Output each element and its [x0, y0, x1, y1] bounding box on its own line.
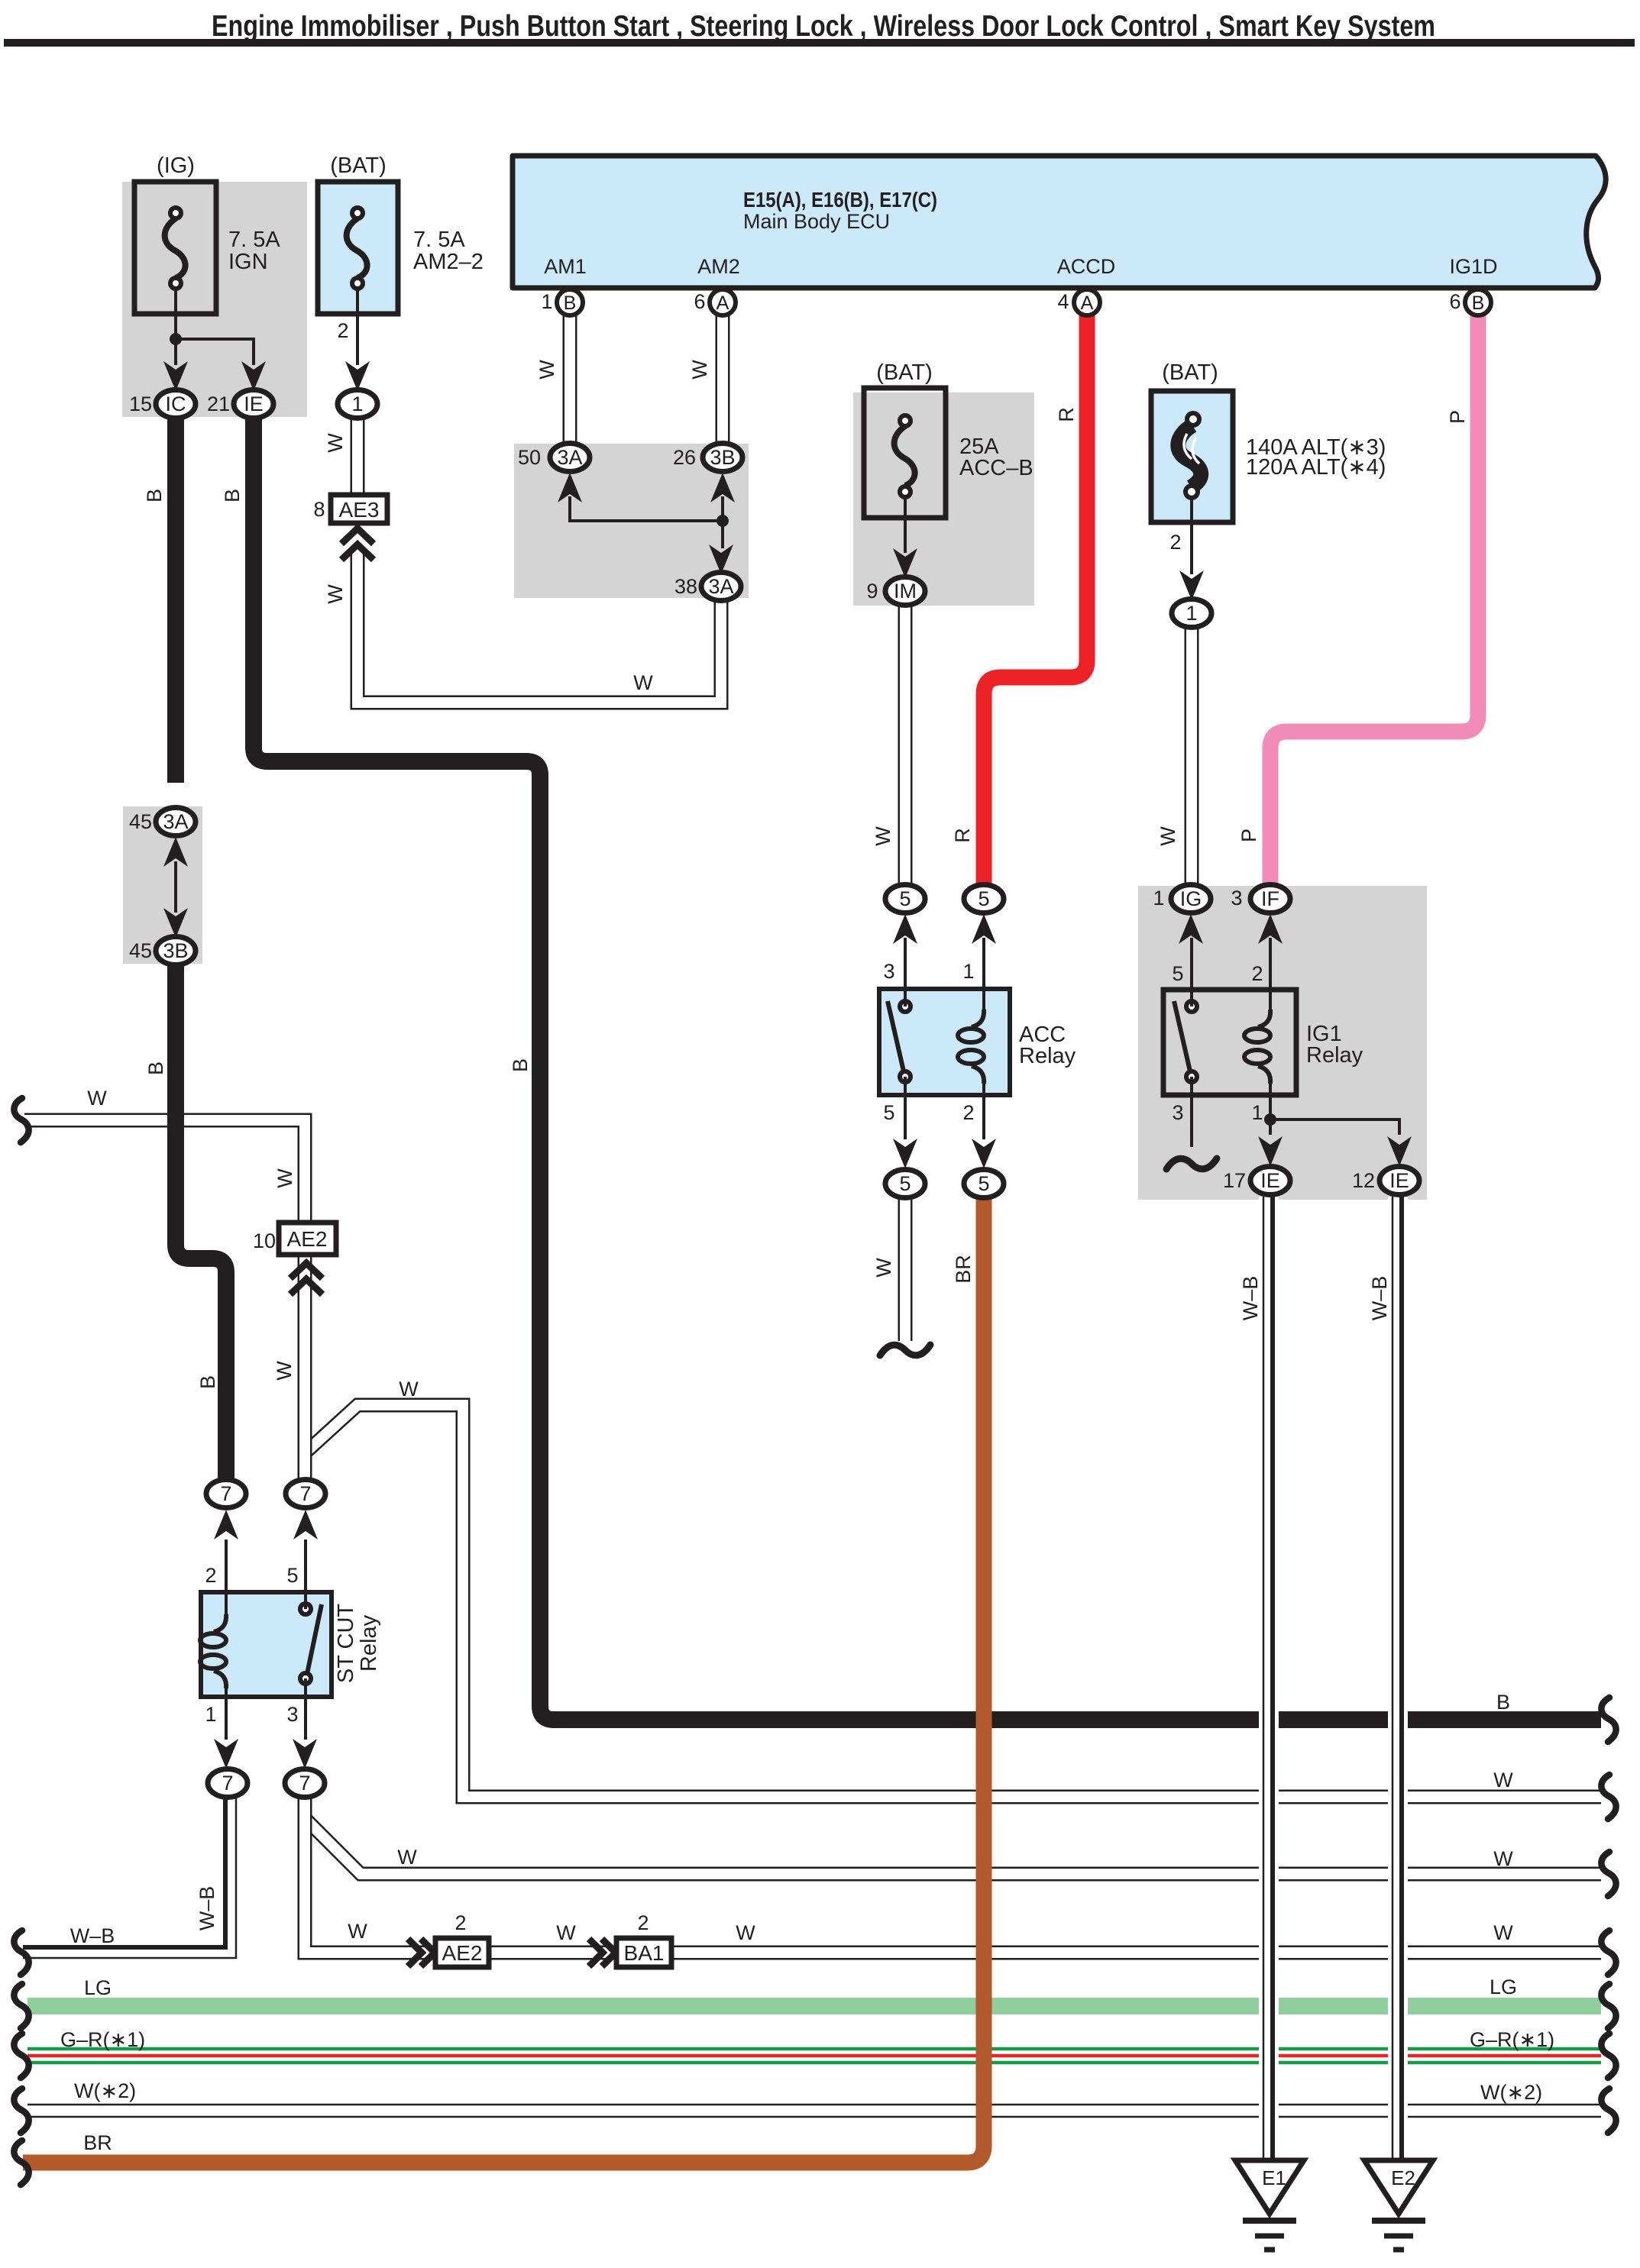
- svg-text:5: 5: [899, 1172, 911, 1195]
- wire W from connector 1 (ALT fuse) to connector IG of IG1 relay: [1185, 625, 1199, 887]
- svg-text:W–B: W–B: [70, 1924, 115, 1947]
- svg-text:38: 38: [674, 575, 697, 598]
- svg-text:B: B: [221, 489, 244, 502]
- break at left edge of W wire to AE2: [14, 1098, 28, 1142]
- svg-text:BR: BR: [83, 2131, 112, 2154]
- pin circle B of ECU connector AM1: [557, 289, 583, 315]
- svg-text:W: W: [273, 1361, 296, 1381]
- svg-text:P: P: [1237, 829, 1260, 842]
- connector oval 3B(26): [703, 444, 742, 472]
- connector oval 3A(50): [550, 444, 590, 472]
- fusible link 140A/120A ALT box: [1151, 391, 1233, 522]
- svg-text:7: 7: [222, 1772, 233, 1795]
- arrow into IM: [893, 548, 917, 578]
- fuse 25A ACC-B symbol: [894, 426, 915, 486]
- svg-text:5: 5: [978, 1172, 989, 1195]
- svg-text:W: W: [1493, 1769, 1513, 1791]
- svg-text:W: W: [399, 1378, 419, 1401]
- svg-text:B: B: [143, 489, 166, 502]
- svg-text:AE2: AE2: [442, 1941, 483, 1965]
- arrow into IC: [163, 361, 188, 391]
- wire W from left break through AE2 to ST CUT relay pin 5 connector 7: [24, 1120, 305, 1479]
- svg-text:3B: 3B: [163, 939, 188, 962]
- svg-text:A: A: [716, 292, 729, 314]
- svg-text:3: 3: [883, 960, 894, 983]
- svg-text:3A: 3A: [708, 575, 733, 598]
- wire BR from left break along bottom and up to ACC relay pin 2 connector 5: [23, 1197, 984, 2163]
- break at right edge of middle W bus: [1601, 1852, 1616, 1896]
- connector oval 7 (ST CUT pin2): [206, 1480, 246, 1508]
- svg-text:1: 1: [962, 960, 974, 983]
- break at left edge of G-R bus: [14, 2034, 28, 2078]
- svg-text:3: 3: [286, 1703, 298, 1726]
- svg-text:IE: IE: [1260, 1169, 1280, 1192]
- gray panel behind ACC-B fuse and IM connector: [853, 393, 1034, 606]
- pin circle A of ECU connector ACCD: [1074, 289, 1100, 315]
- gray panel behind IG1 relay: [1138, 886, 1427, 1200]
- svg-text:21: 21: [207, 393, 230, 415]
- wire W branch from ST CUT pin5 wire to right break (upper W bus): [306, 1405, 1601, 1797]
- svg-text:6: 6: [694, 290, 705, 313]
- fuse 7.5A AM2-2 symbol: [347, 218, 367, 278]
- svg-text:1: 1: [1251, 1101, 1263, 1124]
- svg-text:3: 3: [1172, 1101, 1183, 1124]
- svg-text:W: W: [1156, 826, 1179, 846]
- svg-text:BA1: BA1: [624, 1941, 665, 1965]
- svg-text:3B: 3B: [710, 446, 735, 469]
- svg-text:IE: IE: [1389, 1169, 1409, 1192]
- svg-text:B: B: [196, 1375, 219, 1389]
- IG1 relay pin3 open end squiggle: [1166, 1158, 1217, 1169]
- svg-text:AM2: AM2: [697, 255, 740, 278]
- ACC relay pin wires: [905, 938, 984, 1139]
- connector oval 1 (ALT): [1172, 599, 1211, 628]
- fusible link ALT symbol: [1178, 425, 1201, 487]
- IG1 relay switch: [1174, 1001, 1190, 1071]
- svg-text:2: 2: [1251, 962, 1263, 985]
- svg-text:Engine Immobiliser , Push Butt: Engine Immobiliser , Push Button Start ,…: [212, 10, 1435, 43]
- svg-text:W: W: [1493, 1847, 1513, 1870]
- svg-text:2: 2: [637, 1911, 649, 1934]
- connector oval 5 (ACC pin5 bottom): [885, 1170, 925, 1198]
- ACC relay box: [879, 989, 1010, 1095]
- arrow into connector 1 (ALT): [1179, 570, 1204, 600]
- svg-text:IC: IC: [166, 393, 186, 415]
- connector oval 7 (ST CUT pin5): [286, 1480, 325, 1508]
- IG1 relay coil: [1258, 1010, 1270, 1027]
- svg-text:R: R: [951, 828, 974, 843]
- arrow into connector 1 (AM2-2): [345, 361, 370, 391]
- wire W from junction IM to connector 5 (ACC relay pin 3 side): [898, 603, 913, 887]
- arrow into IE(17): [1258, 1136, 1283, 1166]
- svg-text:7. 5A: 7. 5A: [228, 228, 280, 252]
- svg-text:45: 45: [129, 810, 152, 833]
- svg-text:2: 2: [205, 1564, 216, 1587]
- connector oval 3A(45): [156, 808, 196, 836]
- svg-text:12: 12: [1352, 1169, 1375, 1192]
- arrow into 3A(50): [558, 473, 582, 502]
- wire B from connector IE down, right, down and along bottom to right break (B bus): [254, 417, 1601, 1720]
- svg-text:B: B: [564, 292, 577, 314]
- connector BA1 chevron: [589, 1939, 603, 1966]
- svg-text:W: W: [556, 1921, 576, 1944]
- arrow into IE: [241, 361, 266, 391]
- svg-text:2: 2: [454, 1911, 466, 1934]
- connector oval 1 (AM2-2): [338, 390, 377, 418]
- svg-text:(BAT): (BAT): [876, 360, 933, 385]
- wire W-B white casing for E2 ground wire crossing buses: [1388, 1197, 1408, 2160]
- svg-text:AE3: AE3: [339, 498, 380, 522]
- arrow into 3B(26): [710, 473, 735, 502]
- svg-text:IG: IG: [1180, 887, 1202, 910]
- wire W branch from ST CUT pin3 wire to right break (middle W bus): [306, 1819, 1601, 1874]
- arrow into ST CUT top connector 7 (pin2): [214, 1510, 238, 1539]
- svg-text:W: W: [348, 1920, 367, 1943]
- break at right edge of LG bus: [1601, 1984, 1616, 2028]
- svg-text:3: 3: [1231, 887, 1242, 909]
- svg-text:15: 15: [129, 393, 152, 415]
- svg-text:B: B: [1472, 292, 1485, 314]
- svg-text:W: W: [872, 826, 894, 846]
- svg-text:W–B: W–B: [1368, 1276, 1391, 1321]
- arrow into IF: [1258, 914, 1283, 944]
- svg-text:E2: E2: [1391, 2166, 1415, 2189]
- connector oval IG: [1171, 885, 1211, 913]
- break at right edge of W(*2) bus: [1601, 2089, 1616, 2133]
- svg-text:4: 4: [1057, 290, 1069, 313]
- ground E2 triangle: [1364, 2160, 1433, 2214]
- fuse 7.5A AM2-2 box: [318, 182, 398, 314]
- svg-text:BR: BR: [952, 1255, 975, 1284]
- wire W(*2) bus lower line: [27, 2116, 1601, 2118]
- svg-text:Relay: Relay: [1306, 1043, 1363, 1068]
- svg-text:W: W: [736, 1921, 755, 1944]
- svg-text:26: 26: [673, 446, 696, 469]
- svg-text:5: 5: [978, 887, 989, 910]
- break at left edge of BR bus: [14, 2140, 28, 2185]
- wire W-B from IG1 relay connector IE(12) to ground E2 - thin line: [1392, 1197, 1394, 2160]
- arrow into ACC bottom connector 5 (pin5): [893, 1139, 917, 1168]
- svg-text:W: W: [1493, 1921, 1513, 1944]
- svg-text:W: W: [535, 360, 558, 380]
- wire R from ECU ACCD pin A to ACC relay pin 1 connector 5: [984, 315, 1087, 886]
- svg-text:Relay: Relay: [1019, 1044, 1076, 1068]
- wire from AM2-2 fuse to connector 1: [356, 286, 359, 365]
- svg-text:P: P: [1446, 410, 1469, 424]
- svg-text:2: 2: [1169, 531, 1181, 554]
- arrow into IG: [1179, 914, 1203, 944]
- ECU E15/E16/E17 Main Body ECU box: [513, 156, 1606, 288]
- wire W below ACC relay pin 5 connector to break: [898, 1196, 913, 1341]
- connector AE2(2) box: [435, 1938, 489, 1967]
- ACC relay switch: [888, 1001, 904, 1071]
- break at left edge of LG bus: [14, 1984, 28, 2028]
- connector oval IC: [156, 390, 196, 418]
- arrow into ACC bottom connector 5 (pin2): [972, 1139, 996, 1168]
- arrow into ST CUT top connector 7 (pin5): [293, 1510, 318, 1539]
- svg-text:8: 8: [313, 498, 325, 521]
- svg-text:17: 17: [1223, 1169, 1246, 1192]
- ST CUT relay pin wires: [226, 1539, 306, 1740]
- svg-text:IE: IE: [244, 393, 264, 415]
- break at right edge of G-R bus: [1601, 2034, 1616, 2078]
- wire W-B white casing for E1 ground wire crossing buses: [1259, 1197, 1279, 2160]
- fuse 25A ACC-B box: [864, 388, 946, 518]
- svg-text:5: 5: [286, 1564, 298, 1587]
- svg-text:7. 5A: 7. 5A: [413, 228, 465, 252]
- svg-text:(IG): (IG): [157, 153, 195, 178]
- svg-text:E15(A), E16(B), E17(C): E15(A), E16(B), E17(C): [743, 188, 937, 212]
- svg-text:W: W: [397, 1846, 417, 1869]
- arrow into 3A(38): [709, 544, 733, 574]
- connector oval 5 (ACC pin3 top): [885, 885, 925, 913]
- connector oval IE(17): [1250, 1167, 1290, 1195]
- svg-text:7: 7: [220, 1482, 231, 1505]
- svg-text:(BAT): (BAT): [330, 153, 387, 178]
- arrow into 3B(45): [163, 908, 188, 938]
- svg-text:W: W: [273, 1168, 296, 1188]
- svg-text:2: 2: [337, 319, 348, 342]
- svg-text:9: 9: [866, 580, 878, 603]
- svg-text:3A: 3A: [557, 446, 582, 469]
- svg-text:W: W: [872, 1258, 895, 1278]
- break at left edge of W(*2) bus: [14, 2089, 28, 2133]
- gray panel behind IGN fuse and IC/IE connectors: [122, 182, 307, 417]
- pin circle B of ECU connector IG1D: [1465, 289, 1491, 315]
- gray panel behind 3A/3B junction connectors (top): [514, 444, 749, 598]
- wire W-B from IG1 relay connector IE(17) to ground E1 - thick line: [1270, 1197, 1275, 2160]
- svg-text:3A: 3A: [163, 810, 188, 833]
- connector AE3 chevron: [341, 528, 374, 544]
- IG1 relay box: [1163, 990, 1296, 1095]
- svg-text:Relay: Relay: [357, 1614, 381, 1672]
- svg-text:1: 1: [1186, 602, 1197, 625]
- connector oval IF: [1250, 885, 1290, 913]
- svg-text:5: 5: [1172, 962, 1183, 985]
- svg-text:1: 1: [205, 1703, 216, 1726]
- svg-text:6: 6: [1449, 290, 1460, 313]
- connector BA1 box: [616, 1938, 671, 1967]
- wire G-R(*1) bus green stripe bottom: [27, 2061, 1601, 2065]
- connector oval IE(12): [1380, 1167, 1419, 1195]
- svg-text:IGN: IGN: [228, 250, 268, 274]
- ground E2 earth bars: [1372, 2218, 1425, 2224]
- svg-text:W–B: W–B: [1239, 1276, 1262, 1321]
- connector oval IM: [885, 577, 925, 606]
- svg-text:W: W: [324, 433, 347, 453]
- svg-text:G–R(∗1): G–R(∗1): [1470, 2028, 1554, 2051]
- svg-text:ACC–B: ACC–B: [959, 456, 1033, 480]
- wire W-B from ST CUT pin1 connector 7 to left break - thin line: [23, 1798, 236, 1958]
- break at right edge of upper W bus: [1601, 1775, 1616, 1819]
- svg-text:ACCD: ACCD: [1057, 255, 1116, 278]
- gray panel behind 3A/3B junction connectors (middle left): [123, 806, 202, 964]
- fuse 7.5A IGN box: [134, 182, 216, 314]
- svg-text:G–R(∗1): G–R(∗1): [60, 2028, 145, 2051]
- wire from ACC-B fuse to connector IM: [904, 495, 907, 553]
- svg-text:W: W: [633, 671, 653, 694]
- svg-text:W(∗2): W(∗2): [1480, 2081, 1542, 2104]
- ST CUT relay box: [201, 1592, 332, 1697]
- break at right edge of lower W bus: [1601, 1930, 1616, 1975]
- junction dot below IGN fuse: [170, 333, 182, 345]
- ACC relay coil: [972, 1010, 984, 1027]
- svg-text:W(∗2): W(∗2): [74, 2079, 136, 2102]
- wire from ALT fusible link to connector 1: [1190, 496, 1193, 574]
- svg-text:1: 1: [1153, 887, 1164, 909]
- svg-text:5: 5: [899, 887, 911, 910]
- break at right edge of B bus: [1601, 1698, 1616, 1742]
- svg-text:R: R: [1055, 407, 1078, 422]
- wire stubs between 3A(50)/3B(26) and 3A(38) with junction dot: [570, 496, 723, 548]
- svg-text:W: W: [324, 584, 347, 604]
- connector AE2(2) chevron on lower W bus: [408, 1939, 422, 1966]
- svg-text:W–B: W–B: [196, 1886, 218, 1931]
- wire LG bus: [27, 1998, 1601, 2014]
- wire B from connector IC down to junction 3A(45): [167, 417, 184, 783]
- svg-text:10: 10: [253, 1229, 276, 1252]
- svg-text:IG1D: IG1D: [1449, 255, 1497, 278]
- svg-text:120A ALT(∗4): 120A ALT(∗4): [1246, 455, 1386, 480]
- wire W(*2) bus upper line: [27, 2104, 1601, 2106]
- arrow into IE(12): [1387, 1136, 1412, 1166]
- wire W from ECU AM1 pin B to junction 3A(50): [563, 315, 577, 445]
- ground E1 earth bars: [1243, 2218, 1296, 2224]
- svg-text:45: 45: [129, 939, 152, 962]
- ground E1 triangle: [1235, 2160, 1304, 2214]
- connector oval IE: [234, 390, 273, 418]
- connector oval 7 (ST CUT pin3): [285, 1769, 325, 1798]
- wire G-R(*1) bus green stripe top: [27, 2047, 1601, 2051]
- svg-text:B: B: [144, 1061, 167, 1075]
- ACC relay pin5 wire open end squiggle: [880, 1345, 930, 1355]
- wire W-B from ST CUT pin1 connector 7 to left break - thick line: [23, 1798, 225, 1947]
- connector AE3 box: [331, 495, 387, 523]
- svg-text:5: 5: [883, 1101, 894, 1124]
- connector AE2(10) box: [279, 1223, 336, 1255]
- ST CUT relay switch: [307, 1604, 322, 1674]
- title underline rule: [4, 39, 1635, 47]
- svg-text:A: A: [1081, 292, 1094, 314]
- fuse 7.5A IGN symbol: [165, 218, 186, 278]
- ST CUT relay coil: [214, 1614, 226, 1632]
- wire W from connector 1 (AM2-2 fuse) to connector AE3: [351, 416, 365, 496]
- wire W from ST CUT pin3 connector 7 through AE2 and BA1 to right break (lower W bus): [305, 1798, 1601, 1953]
- svg-text:2: 2: [962, 1101, 974, 1124]
- connector AE2(10) chevron: [290, 1263, 322, 1278]
- connector oval 3A(38): [701, 573, 741, 601]
- arrow into 3A(45): [163, 837, 188, 867]
- svg-text:W: W: [87, 1087, 107, 1110]
- svg-text:1: 1: [351, 393, 363, 415]
- wire W-B from IG1 relay connector IE(17) to ground E1 - thin line: [1263, 1197, 1265, 2160]
- connector oval 3B(45): [156, 937, 196, 965]
- svg-text:B: B: [509, 1058, 532, 1072]
- svg-text:(BAT): (BAT): [1162, 360, 1218, 385]
- arrow into ACC top connector 5 (pin1): [972, 914, 996, 944]
- wire stub between 3A(45) and 3B(45): [174, 861, 177, 913]
- svg-text:AM2–2: AM2–2: [413, 250, 484, 274]
- IG1 relay pin wires and junction: [1192, 938, 1399, 1147]
- svg-text:B: B: [1496, 1691, 1510, 1714]
- svg-text:50: 50: [518, 446, 541, 469]
- wire W-B from IG1 relay connector IE(12) to ground E2 - thick line: [1399, 1197, 1404, 2160]
- svg-text:1: 1: [541, 290, 552, 313]
- svg-text:IF: IF: [1261, 887, 1279, 910]
- svg-text:AM1: AM1: [544, 255, 587, 278]
- arrow into ST CUT bottom connector 7 (pin3): [293, 1739, 317, 1769]
- wire B from junction 3B(45) down, jog right, to ST CUT pin2 connector 7: [176, 964, 226, 1482]
- svg-text:IM: IM: [894, 580, 917, 603]
- arrow into ST CUT bottom connector 7 (pin1): [214, 1739, 238, 1769]
- wire W from ECU AM2 pin A to junction 3B(26): [716, 315, 730, 445]
- svg-text:AE2: AE2: [287, 1227, 328, 1251]
- connector oval 7 (ST CUT pin1): [208, 1769, 247, 1798]
- svg-text:ST CUT: ST CUT: [334, 1604, 358, 1683]
- arrow into ACC top connector 5 (pin3): [893, 914, 917, 944]
- wire from IGN fuse to junction dot and IC/IE arrows: [176, 286, 254, 365]
- svg-text:E1: E1: [1262, 2166, 1286, 2189]
- svg-text:Main Body ECU: Main Body ECU: [743, 210, 890, 233]
- wire G-R(*1) bus red stripe: [27, 2054, 1601, 2058]
- pin circle A of ECU connector AM2: [710, 289, 736, 315]
- wire P from ECU IG1D pin B to IG1 relay pin 2 connector IF: [1270, 315, 1478, 886]
- svg-text:LG: LG: [84, 1976, 112, 1999]
- svg-text:LG: LG: [1490, 1976, 1517, 1998]
- connector oval 5 (ACC pin2 bottom): [964, 1170, 1004, 1198]
- svg-text:7: 7: [299, 1772, 310, 1795]
- connector oval 5 (ACC pin1 top): [964, 885, 1004, 913]
- break at left edge of W-B bus: [14, 1930, 28, 1975]
- svg-text:7: 7: [299, 1482, 311, 1505]
- svg-text:W: W: [688, 360, 711, 380]
- wire W from AE3 down, right and up to junction 3A(38): [357, 550, 721, 703]
